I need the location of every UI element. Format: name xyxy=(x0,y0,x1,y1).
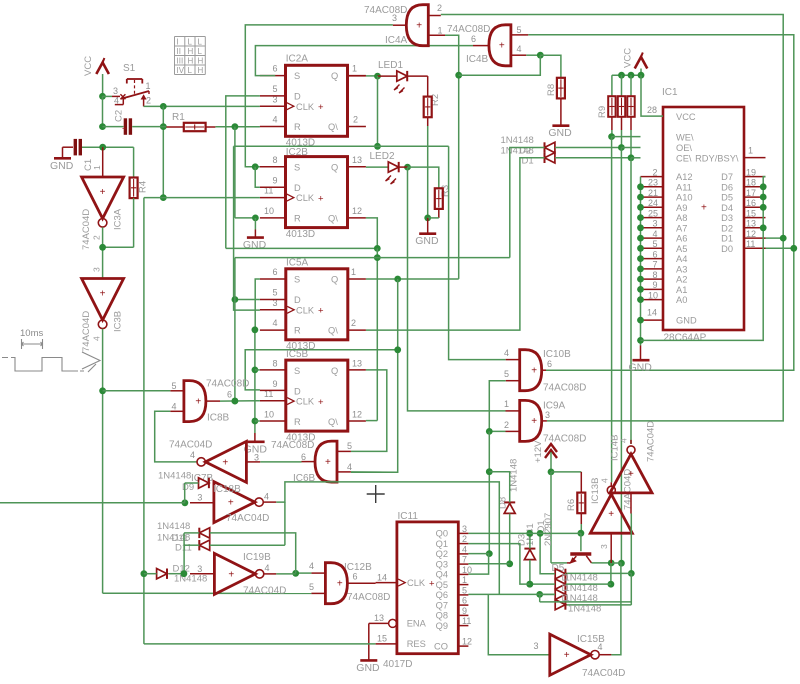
svg-text:+: + xyxy=(628,469,634,480)
wire diode1 cathode to Q0 net xyxy=(540,533,555,573)
svg-text:74AC08D: 74AC08D xyxy=(271,440,314,451)
svg-text:A0: A0 xyxy=(676,295,687,305)
wire IC3B output to IC8B pin5 xyxy=(103,390,171,392)
wire R3 bottom to ground node xyxy=(438,209,440,218)
svg-text:5: 5 xyxy=(347,441,352,451)
svg-text:IC1: IC1 xyxy=(662,87,678,98)
wire LED2 to R3 xyxy=(408,167,439,188)
svg-text:2: 2 xyxy=(462,534,467,544)
wire D11 cathodes to IC19B input node xyxy=(184,532,199,534)
svg-text:1: 1 xyxy=(748,146,753,156)
svg-text:4: 4 xyxy=(190,450,195,460)
wire IC8B output bus vertical xyxy=(234,258,236,401)
wire D2 cathode to IC8B output net xyxy=(510,148,545,258)
svg-text:2: 2 xyxy=(353,115,358,125)
wire LED1 to R2 xyxy=(408,75,428,77)
svg-text:3: 3 xyxy=(113,86,118,96)
wire IC2B D pin9 up to S wire xyxy=(255,167,260,188)
svg-text:CLK: CLK xyxy=(407,578,426,588)
svg-text:Q4: Q4 xyxy=(436,570,448,580)
svg-text:S: S xyxy=(294,275,300,285)
svg-text:10: 10 xyxy=(264,206,274,216)
wire IC4B output pin6 stub xyxy=(473,45,488,47)
wire CE net down to IC14B output xyxy=(630,158,632,444)
wire down to R4 xyxy=(133,147,135,177)
svg-text:+: + xyxy=(701,203,707,214)
svg-text:S: S xyxy=(294,162,300,172)
svg-text:A10: A10 xyxy=(676,193,693,203)
svg-text:D: D xyxy=(294,387,301,397)
svg-text:1: 1 xyxy=(146,81,151,91)
svg-text:5: 5 xyxy=(273,288,278,298)
svg-text:3: 3 xyxy=(197,564,202,574)
svg-text:74AC08D: 74AC08D xyxy=(364,5,407,16)
svg-text:CLK: CLK xyxy=(296,102,315,112)
svg-text:74AC04D: 74AC04D xyxy=(646,421,657,462)
svg-text:1: 1 xyxy=(92,165,102,170)
wire LED2 net down to IC9A pin1 xyxy=(408,167,506,411)
svg-text:+: + xyxy=(531,365,537,376)
svg-text:R6: R6 xyxy=(566,499,577,511)
svg-text:12: 12 xyxy=(352,409,362,419)
svg-text:GND: GND xyxy=(676,316,697,326)
wire IC19B output to node xyxy=(276,573,295,575)
svg-text:H: H xyxy=(198,66,204,75)
svg-text:+: + xyxy=(318,193,324,204)
svg-text:4: 4 xyxy=(265,563,270,573)
wire C2 left xyxy=(103,126,124,128)
svg-text:R9: R9 xyxy=(597,106,608,118)
wire IC15B input run xyxy=(540,601,632,603)
wire diode3 row to Q6 net xyxy=(540,593,555,595)
svg-text:IC3B: IC3B xyxy=(113,311,124,332)
svg-text:3: 3 xyxy=(197,493,202,503)
svg-text:A8: A8 xyxy=(676,213,687,223)
ground under IC2B pin 10 xyxy=(254,230,256,237)
svg-text:1N4148: 1N4148 xyxy=(501,135,534,146)
svg-text:Q0: Q0 xyxy=(436,529,448,539)
wire IC14B input down to diode node xyxy=(630,493,632,514)
wire Q2 to IC9A pin2 net xyxy=(468,553,489,555)
svg-text:+12V: +12V xyxy=(533,440,544,463)
svg-text:1: 1 xyxy=(504,399,509,409)
svg-text:4: 4 xyxy=(273,318,278,328)
ground for IC5 S/R pins xyxy=(248,440,265,443)
svg-text:GND: GND xyxy=(243,239,267,251)
svg-text:IC4B: IC4B xyxy=(466,54,489,65)
wire Q-bar/D2 row xyxy=(235,257,510,259)
svg-text:2: 2 xyxy=(437,3,442,13)
svg-text:3: 3 xyxy=(545,410,550,420)
svg-text:2N2907: 2N2907 xyxy=(543,513,554,546)
svg-text:GND: GND xyxy=(50,160,74,172)
wire S/R ground bus of IC5 xyxy=(254,330,256,433)
wire clock net down-left to D12/RES xyxy=(143,198,145,574)
wire WE net down to IC13B output xyxy=(611,137,613,483)
svg-text:10: 10 xyxy=(264,409,274,419)
svg-text:CLK: CLK xyxy=(296,397,315,407)
svg-text:R: R xyxy=(294,326,301,336)
svg-text:74AC08D: 74AC08D xyxy=(347,592,390,603)
svg-text:74AC04D: 74AC04D xyxy=(81,311,92,352)
wire Q6 to diode row3 and IC15B input xyxy=(468,593,555,595)
svg-text:4: 4 xyxy=(619,438,629,443)
svg-text:3: 3 xyxy=(392,13,397,23)
svg-text:A12: A12 xyxy=(676,172,693,182)
wire IC18B output down to D11 row2 xyxy=(284,502,286,545)
wire D11 row1 to IC19B output node xyxy=(210,533,296,573)
svg-text:4: 4 xyxy=(92,336,102,341)
wire IC2A S pin6 loop to IC4B output xyxy=(255,46,473,76)
svg-text:IC8B: IC8B xyxy=(207,413,230,424)
svg-text:9: 9 xyxy=(273,379,278,389)
svg-text:VCC: VCC xyxy=(676,112,696,122)
svg-text:2: 2 xyxy=(504,420,509,430)
wire +12V down to Q1 emitter xyxy=(550,472,552,563)
svg-text:Q: Q xyxy=(331,162,338,172)
svg-text:15: 15 xyxy=(377,634,387,644)
wire R11 to CE row xyxy=(630,117,632,130)
wire CE row to IC1 pin20 xyxy=(631,157,641,159)
svg-text:1N4148: 1N4148 xyxy=(158,470,191,481)
wire +12V node xyxy=(550,452,552,472)
wire diode1 anode row xyxy=(564,573,567,575)
wire IC15B output up to OE net xyxy=(611,563,621,655)
svg-text:6: 6 xyxy=(471,34,476,44)
svg-text:74AC08D: 74AC08D xyxy=(206,379,249,390)
wire S1 pin3 from VCC node xyxy=(103,95,113,97)
wire Q4 jog up to Q2 net xyxy=(468,554,488,574)
svg-text:A3: A3 xyxy=(676,265,687,275)
wire D3 cathode up to Q0 row xyxy=(529,533,531,548)
svg-text:IC2A: IC2A xyxy=(286,54,309,65)
svg-text:IC4A: IC4A xyxy=(385,35,408,46)
wire IC5A S pin6 down to ground bus xyxy=(255,279,260,330)
svg-text:3: 3 xyxy=(534,641,539,651)
wire diode2 row to Q1/Q5 net xyxy=(530,583,555,585)
wire IC5B R pin10 to ground bus xyxy=(255,420,260,422)
svg-text:14: 14 xyxy=(377,573,387,583)
svg-text:5: 5 xyxy=(309,582,314,592)
svg-text:R8: R8 xyxy=(546,84,557,96)
svg-text:CE\: CE\ xyxy=(676,153,692,163)
ground for C1 xyxy=(63,146,74,148)
svg-text:9: 9 xyxy=(273,175,278,185)
svg-text:+: + xyxy=(608,509,614,520)
wire IC18B output loop to Q6/IC15B run xyxy=(276,482,499,594)
wire C2 right / R1 row xyxy=(132,126,166,128)
svg-text:D2: D2 xyxy=(721,223,733,233)
svg-text:D6: D6 xyxy=(721,182,733,192)
svg-text:A2: A2 xyxy=(676,275,687,285)
svg-text:H: H xyxy=(188,56,194,65)
svg-text:Q2: Q2 xyxy=(436,549,448,559)
wire IC7B input to IC6B output xyxy=(260,461,301,463)
wire IC18B input node xyxy=(0,502,185,504)
cursor crosshair mark xyxy=(367,485,385,503)
svg-text:RES: RES xyxy=(407,639,426,649)
svg-text:1N4148: 1N4148 xyxy=(157,521,190,532)
svg-text:R4: R4 xyxy=(138,181,149,193)
svg-text:LED2: LED2 xyxy=(370,151,395,162)
svg-text:+: + xyxy=(416,20,422,31)
svg-text:+: + xyxy=(499,41,505,52)
svg-text:74AC08D: 74AC08D xyxy=(543,434,586,445)
ground under R3 xyxy=(427,218,429,233)
wire VCC rail to pull-up resistors xyxy=(612,74,641,76)
svg-text:2: 2 xyxy=(92,235,102,240)
svg-text:IC19B: IC19B xyxy=(243,552,271,563)
wire D8 anode to Q3 row xyxy=(509,514,511,564)
svg-text:Q3: Q3 xyxy=(436,559,448,569)
svg-text:VCC: VCC xyxy=(83,56,94,76)
svg-text:8: 8 xyxy=(273,358,278,368)
svg-text:Q8: Q8 xyxy=(436,611,448,621)
svg-text:CLK: CLK xyxy=(296,193,315,203)
svg-text:R: R xyxy=(294,214,301,224)
svg-text:3: 3 xyxy=(599,544,609,549)
svg-text:IC3A: IC3A xyxy=(113,208,124,230)
wire D9 node xyxy=(185,482,199,484)
wire feedback row to IC2A D xyxy=(226,247,377,249)
svg-text:IC18B: IC18B xyxy=(213,484,241,495)
svg-text:5: 5 xyxy=(504,369,509,379)
svg-text:4: 4 xyxy=(517,44,522,54)
wire C1 node into IC3A pin 1 xyxy=(102,147,104,177)
wire D0 pin11 to right-edge bus xyxy=(766,247,794,249)
svg-text:L: L xyxy=(198,47,203,56)
inverter IC15B xyxy=(550,634,591,675)
svg-text:A6: A6 xyxy=(676,234,687,244)
svg-text:ENA: ENA xyxy=(407,619,427,629)
svg-text:A4: A4 xyxy=(676,254,687,264)
wire data bus tie (right of IC1) xyxy=(641,177,766,341)
svg-text:Q: Q xyxy=(331,71,338,81)
ground under R8 xyxy=(560,98,562,125)
svg-text:13: 13 xyxy=(352,155,362,165)
svg-text:A1: A1 xyxy=(676,285,687,295)
svg-text:5: 5 xyxy=(172,381,177,391)
svg-text:14: 14 xyxy=(647,307,657,317)
wire IC2A Q1 down to LED1 row xyxy=(377,76,379,146)
svg-text:3: 3 xyxy=(254,453,259,463)
svg-text:D0: D0 xyxy=(721,244,733,254)
wire Q1 collector node xyxy=(592,562,612,564)
svg-text:1N4148: 1N4148 xyxy=(568,604,601,615)
wire diode rows 1+4 to IC14B input xyxy=(566,572,631,574)
svg-text:4: 4 xyxy=(273,115,278,125)
svg-text:5: 5 xyxy=(462,585,467,595)
svg-text:4: 4 xyxy=(504,348,509,358)
svg-text:5: 5 xyxy=(517,25,522,35)
svg-text:74AC04D: 74AC04D xyxy=(226,513,269,524)
wire IC3A out to IC3B in xyxy=(102,227,104,278)
svg-text:4: 4 xyxy=(600,478,610,483)
wire down to IC6B pin4 xyxy=(351,279,398,472)
svg-text:+: + xyxy=(228,569,234,580)
svg-text:4: 4 xyxy=(309,561,314,571)
svg-text:11: 11 xyxy=(462,616,471,626)
svg-text:3: 3 xyxy=(92,267,102,272)
svg-text:+: + xyxy=(325,457,331,468)
svg-text:4: 4 xyxy=(462,544,467,554)
svg-text:GND: GND xyxy=(415,235,439,247)
svg-text:6: 6 xyxy=(273,267,278,277)
svg-text:13: 13 xyxy=(374,613,384,623)
svg-text:OE\: OE\ xyxy=(676,143,692,153)
wire IC4A output down to IC2B S pin8 xyxy=(245,25,393,167)
svg-text:74AC04D: 74AC04D xyxy=(582,668,625,679)
wire clock net vertical x=163 xyxy=(162,106,164,197)
wire collector node to diode row 2 xyxy=(610,563,612,584)
svg-text:5: 5 xyxy=(273,84,278,94)
wire D11 row2 from IC18B output xyxy=(210,544,285,546)
wire clock net to D12 xyxy=(143,574,145,644)
svg-text:+: + xyxy=(337,578,343,589)
svg-text:C2: C2 xyxy=(114,110,125,122)
svg-text:Q1: Q1 xyxy=(436,539,448,549)
wire address bus tie (left of IC1) xyxy=(640,177,642,346)
svg-text:III: III xyxy=(177,56,184,65)
wire D12 cathode to IC19B input xyxy=(168,573,184,575)
svg-text:4: 4 xyxy=(172,402,177,412)
wire R9 to WE row xyxy=(611,117,613,130)
svg-text:74AC08D: 74AC08D xyxy=(543,383,586,394)
svg-text:Q9: Q9 xyxy=(436,621,448,631)
wire R6 bottom to Q1 base / Q0 net xyxy=(580,513,582,524)
svg-text:13: 13 xyxy=(352,358,362,368)
wire R10 to OE row xyxy=(621,117,623,130)
wire Q-bar bus down to IC5B xyxy=(376,248,378,420)
wire IC4B pin5 to EEPROM D0 column then page-wide D0 bus at y=370 xyxy=(528,35,794,371)
wire IC5A R pin4 / IC5B D pin9 link xyxy=(245,350,398,390)
svg-text:7: 7 xyxy=(462,555,467,565)
svg-text:1: 1 xyxy=(462,575,467,585)
wire Q0 to R6/base row xyxy=(468,532,581,534)
svg-text:74AC04D: 74AC04D xyxy=(81,209,92,250)
svg-text:10ms: 10ms xyxy=(20,328,43,339)
svg-text:L: L xyxy=(188,66,193,75)
svg-text:6: 6 xyxy=(353,572,358,582)
svg-text:8: 8 xyxy=(273,155,278,165)
wire to IC2B R pin 10 junction xyxy=(235,217,256,219)
inverter IC18B xyxy=(214,482,255,523)
svg-text:28C64AP: 28C64AP xyxy=(664,333,707,344)
svg-text:+: + xyxy=(318,102,324,113)
wire IC2A Q net to IC5A CLK and IC10B xyxy=(234,145,449,147)
wire D2 anode to OE row xyxy=(555,147,622,149)
wire VCC to S1/C2 node xyxy=(102,74,104,96)
ground under IC1 xyxy=(640,346,642,360)
svg-text:H: H xyxy=(198,56,204,65)
svg-text:D7: D7 xyxy=(721,172,733,182)
svg-text:VCC: VCC xyxy=(623,48,634,68)
wire IC8B output to IC5B CLK xyxy=(220,400,260,402)
svg-text:IC5A: IC5A xyxy=(286,258,309,269)
svg-text:GND: GND xyxy=(356,662,380,674)
svg-text:1N4148: 1N4148 xyxy=(174,573,207,584)
svg-text:RDY/BSY\: RDY/BSY\ xyxy=(695,153,739,163)
svg-text:6: 6 xyxy=(547,359,552,369)
svg-text:4017D: 4017D xyxy=(383,659,412,670)
wire WE row to IC1 pin27 xyxy=(612,136,641,138)
svg-text:+: + xyxy=(122,124,127,133)
svg-text:IC12B: IC12B xyxy=(344,562,372,573)
svg-text:+: + xyxy=(531,416,537,427)
svg-text:Q\: Q\ xyxy=(328,417,338,427)
wire D3 anode down to Q5 row xyxy=(529,560,531,584)
svg-text:4: 4 xyxy=(347,462,352,472)
svg-text:+: + xyxy=(228,498,234,509)
wire R2 down to ground node xyxy=(427,117,429,126)
svg-text:IC7B: IC7B xyxy=(191,473,214,484)
wire Q6 junction down to IC15B input wire xyxy=(539,594,541,602)
wire D1 cathode to IC5A Q-bar xyxy=(366,158,545,330)
svg-text:D4: D4 xyxy=(721,203,733,213)
wire IC5B Q pin13 to IC6B pin5 xyxy=(351,370,387,452)
svg-text:II: II xyxy=(177,47,181,56)
svg-text:+: + xyxy=(100,289,106,300)
svg-text:+: + xyxy=(564,650,570,661)
svg-text:12: 12 xyxy=(462,637,472,647)
wire Q1 to diode row2 xyxy=(468,544,529,585)
svg-text:6: 6 xyxy=(462,596,467,606)
svg-text:Q: Q xyxy=(331,275,338,285)
wire IC5A D pin5 to Q-bar bus xyxy=(235,299,260,301)
wire IC2B Q-bar pin12 feedback xyxy=(366,218,377,249)
svg-text:R3: R3 xyxy=(440,185,451,197)
svg-text:Q7: Q7 xyxy=(436,600,448,610)
wire IC5B Q-bar pin12 to bus xyxy=(366,420,377,422)
svg-text:1: 1 xyxy=(352,64,357,74)
svg-text:GND: GND xyxy=(629,362,653,374)
svg-text:Q6: Q6 xyxy=(436,590,448,600)
svg-text:1: 1 xyxy=(351,267,356,277)
inverter IC13B xyxy=(590,494,632,533)
svg-text:3: 3 xyxy=(462,524,467,534)
wire D1 anode to CE row xyxy=(555,157,631,159)
wire IC5B S pin8 to ground bus xyxy=(255,369,260,371)
svg-text:IV: IV xyxy=(177,66,185,75)
svg-text:2: 2 xyxy=(351,318,356,328)
svg-text:12: 12 xyxy=(352,206,362,216)
svg-text:CLK: CLK xyxy=(296,305,315,315)
wire net down to IC2B R/GND junction xyxy=(234,127,236,218)
wire D8 cathode to IC9A pin2 net xyxy=(489,472,509,503)
wire IC2A D pin5 to Q-bar feedback bus xyxy=(226,96,260,249)
svg-text:74AC04D: 74AC04D xyxy=(169,440,212,451)
svg-text:S: S xyxy=(294,71,300,81)
svg-text:Q\: Q\ xyxy=(328,214,338,224)
wire IC9A pin2 net down to D8 and Q2/Q4 xyxy=(488,431,490,553)
svg-text:Q\: Q\ xyxy=(328,326,338,336)
svg-text:A7: A7 xyxy=(676,223,687,233)
wire R1 right to IC2A R pin xyxy=(215,126,260,128)
wire IC5A Q pin1 to IC4 input net xyxy=(366,278,459,280)
svg-text:Q5: Q5 xyxy=(436,580,448,590)
wire IC3B net to IC12B pin5 xyxy=(103,592,312,594)
wire IC4B pin4 node to R8 and feedback xyxy=(526,54,540,56)
svg-text:74AC08D: 74AC08D xyxy=(447,24,490,35)
svg-text:A9: A9 xyxy=(676,203,687,213)
svg-text:CO: CO xyxy=(434,641,448,651)
svg-text:R: R xyxy=(294,122,301,132)
wire IC4A pin1 to IC4B output net xyxy=(445,35,459,279)
svg-text:+: + xyxy=(429,578,435,589)
svg-text:A11: A11 xyxy=(676,182,692,192)
wire R4 bottom to IC3A output node xyxy=(133,198,135,247)
wire OE row to IC1 pin22 xyxy=(621,147,640,149)
